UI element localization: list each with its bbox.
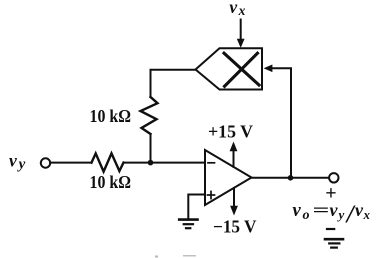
wire feedback from output node up to multiplier (270, 68, 291, 178)
node B (output node) (288, 175, 294, 181)
ground (op-amp + input) (179, 218, 197, 221)
output terminal circle (329, 173, 338, 182)
multiplier U2 body (196, 48, 263, 89)
ground (output reference) (325, 238, 343, 241)
multiplier U2 X symbol (224, 53, 259, 85)
wire R1 to op-amp inverting input (124, 162, 206, 164)
op-amp noninverting input plus sign (208, 194, 215, 196)
node A (summing junction) (148, 160, 154, 166)
input terminal (v_y) (41, 158, 50, 167)
svg-text:=: = (313, 200, 330, 220)
resistor R1 10 kOhm (horizontal) (92, 153, 124, 171)
wire R2 top to multiplier output point (151, 70, 196, 97)
label vo = vy/vx (293, 200, 371, 228)
wire node A up to resistor R2 (150, 134, 152, 163)
svg-text:vx: vx (229, 0, 247, 18)
wire input terminal to resistor R1 (50, 162, 91, 164)
output minus sign (327, 228, 334, 230)
svg-text:vy: vy (9, 150, 27, 172)
svg-text:v: v (293, 201, 302, 221)
arrow up +15V (230, 142, 238, 152)
svg-text:−15 V: −15 V (213, 217, 257, 237)
wire -15V supply (233, 188, 235, 205)
arrow down -15V (230, 206, 238, 216)
svg-text:x: x (363, 207, 371, 222)
arrow into multiplier top (v_x) (237, 39, 245, 48)
op-amp U1 triangle (205, 150, 252, 205)
wire noninverting input to ground (188, 195, 205, 219)
wire +15V supply (233, 151, 235, 167)
wire op-amp output to output terminal (252, 177, 330, 179)
svg-text:o: o (303, 208, 310, 223)
faint scan artifact bottom (155, 256, 158, 258)
op-amp inverting input minus sign (208, 162, 215, 164)
svg-text:10 kΩ: 10 kΩ (90, 172, 132, 192)
resistor R2 10 kOhm (vertical, feedback) (141, 97, 158, 134)
arrow into multiplier right side (264, 65, 273, 73)
svg-text:10 kΩ: 10 kΩ (90, 106, 132, 126)
svg-text:v: v (330, 200, 339, 220)
svg-text:+15 V: +15 V (208, 122, 253, 142)
svg-text:y: y (337, 207, 345, 222)
wire v_x input (240, 20, 242, 41)
